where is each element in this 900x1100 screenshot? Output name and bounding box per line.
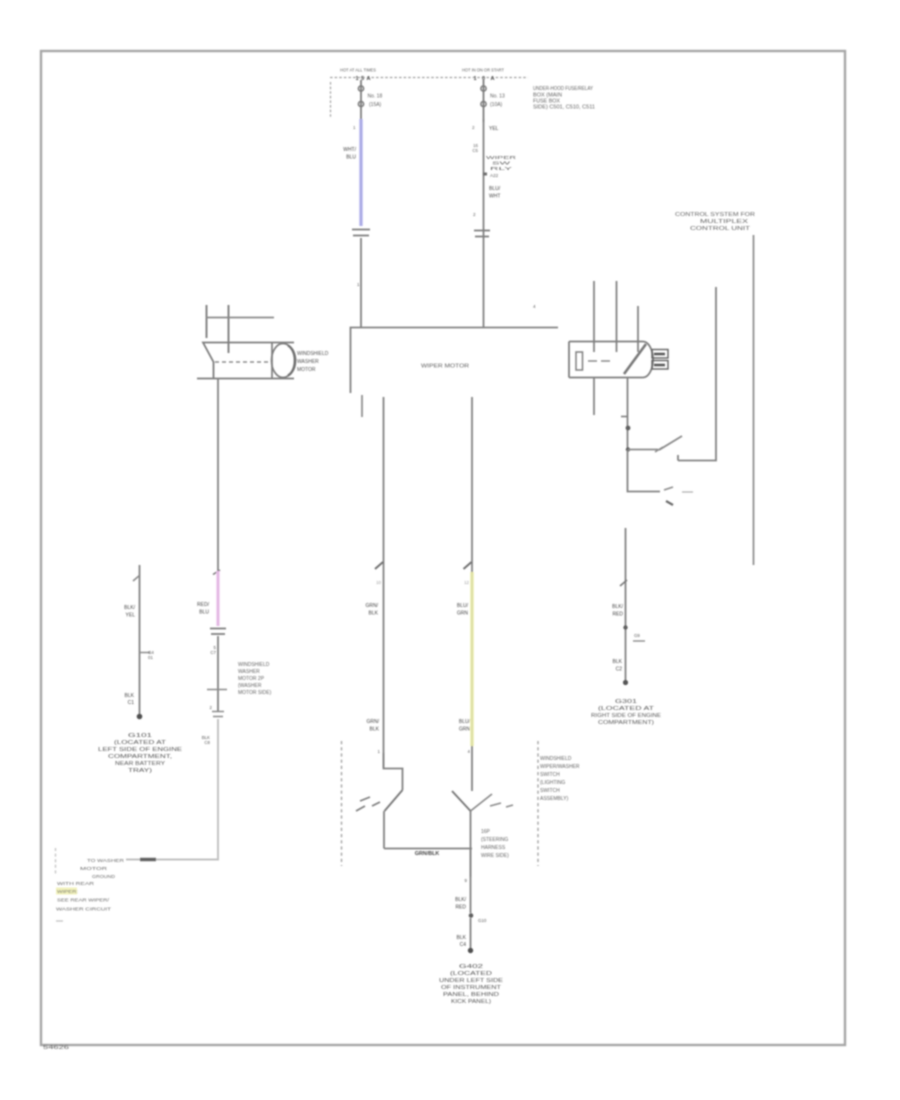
- svg-text:G301: G301: [615, 699, 637, 705]
- svg-text:WIPER/WASHER: WIPER/WASHER: [540, 764, 580, 770]
- washer motor dashed divider: [215, 361, 269, 363]
- svg-text:UNDER-HOOD FUSE/RELAY: UNDER-HOOD FUSE/RELAY: [533, 86, 594, 92]
- svg-text:MOTOR SIDE): MOTOR SIDE): [238, 690, 272, 696]
- svg-text:MULTIPLEX: MULTIPLEX: [700, 219, 749, 225]
- svg-text:WHT: WHT: [489, 194, 500, 200]
- svg-text:(LOCATED AT: (LOCATED AT: [114, 740, 166, 746]
- left ground wire: [139, 565, 141, 715]
- svg-text:1: 1: [353, 125, 356, 130]
- connector chevron: [213, 570, 220, 575]
- in-line connector C1: [352, 230, 370, 236]
- svg-text:BLK/: BLK/: [612, 604, 623, 610]
- in-line connector C4: [212, 712, 224, 717]
- svg-text:BLK: BLK: [457, 935, 467, 941]
- svg-text:G10: G10: [478, 918, 487, 923]
- svg-text:10: 10: [376, 580, 381, 585]
- svg-text:GRN/: GRN/: [367, 719, 380, 725]
- right return wire: [678, 287, 716, 461]
- svg-text:WHT/: WHT/: [343, 147, 356, 153]
- svg-text:MOTOR: MOTOR: [80, 866, 108, 872]
- wire from control system label: [753, 235, 755, 565]
- relay connector stack: [652, 350, 668, 359]
- relay stub left: [593, 378, 595, 415]
- wire washer motor down: [217, 378, 219, 571]
- wire B to switch: [471, 746, 473, 791]
- svg-text:WINDSHIELD: WINDSHIELD: [238, 662, 270, 668]
- svg-text:2: 2: [473, 212, 476, 217]
- washer motor pin 2: [228, 305, 230, 353]
- svg-text:WIPER MOTOR: WIPER MOTOR: [421, 364, 469, 370]
- svg-text:(15A): (15A): [369, 102, 382, 108]
- svg-text:WITH REAR: WITH REAR: [57, 881, 95, 887]
- washer motor pin 1: [206, 305, 208, 338]
- svg-text:CONTROL UNIT: CONTROL UNIT: [690, 226, 750, 232]
- svg-text:A22: A22: [490, 173, 499, 178]
- wire WHT/BLU (blue): [359, 119, 362, 226]
- wire B from motor box: [471, 397, 473, 572]
- svg-text:NEAR BATTERY: NEAR BATTERY: [115, 761, 166, 767]
- svg-text:OF INSTRUMENT: OF INSTRUMENT: [441, 985, 501, 991]
- svg-text:RED: RED: [612, 612, 623, 618]
- svg-text:SEE REAR WIPER/: SEE REAR WIPER/: [57, 898, 110, 904]
- ground G402: [468, 948, 473, 953]
- switch dash: [664, 487, 673, 490]
- wiper relay body: [569, 342, 643, 378]
- svg-text:(WASHER: (WASHER: [238, 683, 262, 689]
- switch dashed box right: [537, 741, 539, 866]
- contact dot: [666, 501, 673, 505]
- svg-text:YEL: YEL: [489, 126, 499, 132]
- svg-text:TRAY): TRAY): [128, 768, 153, 774]
- svg-text:LEFT SIDE OF ENGINE: LEFT SIDE OF ENGINE: [98, 747, 183, 753]
- svg-text:BLK: BLK: [613, 659, 623, 665]
- junction dot w/ label: [623, 625, 627, 629]
- washer motor body: [197, 343, 294, 379]
- switch link horizontal: [384, 848, 472, 850]
- wire A jog: [384, 753, 403, 790]
- relay pin lead 1: [593, 281, 595, 352]
- svg-text:GRN/BLK: GRN/BLK: [415, 851, 440, 857]
- svg-text:HARNESS: HARNESS: [481, 845, 506, 851]
- svg-text:BLU/: BLU/: [457, 603, 469, 609]
- wire: [360, 238, 362, 327]
- switch B dashes: [490, 803, 513, 807]
- svg-text:54626: 54626: [43, 1045, 69, 1051]
- ground G301: [623, 680, 628, 685]
- svg-text:YEL: YEL: [126, 613, 136, 619]
- svg-text:16P: 16P: [481, 829, 491, 835]
- wiper switch pole B: [452, 791, 471, 811]
- svg-text:G101: G101: [128, 733, 152, 739]
- svg-text:MOTOR 2P: MOTOR 2P: [238, 676, 265, 682]
- svg-text:(STEERING: (STEERING: [481, 837, 508, 843]
- wire: [217, 636, 219, 712]
- in-line connector tick dark: [140, 858, 156, 861]
- svg-text:No. 13: No. 13: [490, 94, 505, 100]
- in-line connector C3: [210, 629, 226, 635]
- pin tick: [621, 416, 627, 418]
- fuse F1: [360, 80, 362, 122]
- switch dashed box left: [341, 741, 343, 866]
- svg-text:C4: C4: [460, 942, 467, 948]
- faint dash: [56, 920, 63, 922]
- svg-text:WASHER: WASHER: [238, 669, 260, 675]
- svg-text:COMPARTMENT): COMPARTMENT): [598, 720, 654, 726]
- wire B tail: [470, 848, 472, 913]
- junction dot w/ label: [469, 913, 474, 918]
- svg-text:1: 1: [357, 282, 360, 287]
- svg-text:CONTROL SYSTEM FOR: CONTROL SYSTEM FOR: [675, 212, 756, 218]
- svg-text:2: 2: [472, 125, 475, 130]
- svg-text:BLK: BLK: [125, 693, 135, 699]
- switch A dashes: [356, 797, 380, 811]
- pointer tick: [633, 640, 645, 642]
- svg-text:SWITCH: SWITCH: [540, 788, 560, 794]
- svg-text:BLU/: BLU/: [489, 186, 501, 192]
- relay pin lead 3: [637, 306, 639, 352]
- svg-text:KICK PANEL): KICK PANEL): [451, 999, 491, 1005]
- junction tick w/ label: [139, 652, 150, 654]
- wire: [330, 82, 332, 117]
- svg-text:(LIGHTING: (LIGHTING: [540, 780, 565, 786]
- svg-text:01: 01: [148, 655, 153, 660]
- svg-text:15A: 15A: [356, 76, 371, 82]
- svg-text:WINDSHIELD: WINDSHIELD: [540, 756, 572, 762]
- wire down to ground: [625, 528, 627, 682]
- svg-text:RIGHT SIDE OF ENGINE: RIGHT SIDE OF ENGINE: [591, 713, 662, 719]
- svg-text:C2: C2: [616, 667, 623, 673]
- svg-text:BLU/: BLU/: [459, 719, 471, 725]
- svg-text:BLU: BLU: [346, 155, 356, 161]
- washer motor top lead: [206, 317, 274, 319]
- dashed stub: [55, 848, 57, 874]
- svg-text:BLK: BLK: [370, 727, 380, 733]
- relay right arc: [643, 342, 653, 378]
- svg-text:BLK/: BLK/: [124, 605, 135, 611]
- pin stub: [361, 395, 363, 417]
- svg-text:PANEL, BEHIND: PANEL, BEHIND: [443, 992, 500, 998]
- wire faint down-left: [126, 719, 218, 860]
- junction dot: [626, 447, 630, 451]
- svg-text:BLU: BLU: [199, 610, 209, 616]
- svg-text:2: 2: [210, 705, 213, 710]
- wire B YEL highlight: [470, 572, 474, 746]
- svg-text:RED: RED: [455, 905, 466, 911]
- svg-text:C8: C8: [204, 740, 210, 745]
- switch B arm right: [471, 794, 493, 811]
- svg-text:HOT AT ALL TIMES: HOT AT ALL TIMES: [340, 68, 376, 73]
- switch contact horizontal: [628, 449, 658, 451]
- svg-text:4: 4: [468, 749, 471, 754]
- svg-text:12: 12: [464, 580, 469, 585]
- relay switch arm: [624, 344, 646, 374]
- svg-text:C1: C1: [128, 700, 135, 706]
- svg-text:No. 18: No. 18: [368, 94, 383, 100]
- ground G101: [137, 714, 143, 720]
- washer motor pump circle: [271, 343, 273, 378]
- svg-text:WIPER: WIPER: [486, 155, 517, 160]
- junction marker: [483, 173, 487, 176]
- wire: [483, 119, 485, 327]
- svg-text:ASSEMBLY): ASSEMBLY): [540, 796, 569, 802]
- svg-text:WASHER CIRCUIT: WASHER CIRCUIT: [56, 907, 111, 913]
- svg-text:RLY: RLY: [490, 166, 512, 171]
- pointer dash: [207, 689, 227, 691]
- svg-text:G9: G9: [634, 633, 640, 638]
- wiper switch pole A: [385, 790, 403, 811]
- svg-text:1: 1: [378, 749, 381, 754]
- in-line connector C2: [474, 231, 490, 237]
- svg-text:(LOCATED AT: (LOCATED AT: [598, 706, 654, 712]
- svg-text:4: 4: [533, 304, 536, 309]
- wire: [470, 918, 472, 949]
- svg-text:GROUND: GROUND: [92, 874, 116, 880]
- svg-text:9: 9: [465, 878, 468, 883]
- svg-text:GRN: GRN: [459, 727, 471, 733]
- svg-text:UNDER LEFT SIDE: UNDER LEFT SIDE: [439, 978, 504, 984]
- svg-text:(10A): (10A): [490, 102, 503, 108]
- svg-text:GRN/: GRN/: [366, 603, 379, 609]
- switch dash 2: [682, 491, 693, 493]
- svg-text:WINDSHIELD: WINDSHIELD: [297, 351, 329, 357]
- svg-text:HOT IN ON OR START: HOT IN ON OR START: [462, 68, 504, 73]
- connector chevron A: [375, 562, 383, 569]
- relay inner pin block: [576, 352, 583, 370]
- under-hood fuse/relay box dashed outline: [330, 77, 528, 79]
- wiper motor box: [351, 328, 559, 394]
- wire B below switch: [470, 811, 472, 877]
- svg-text:SW: SW: [492, 161, 512, 166]
- svg-text:BLK/: BLK/: [455, 897, 466, 903]
- svg-text:COMPARTMENT,: COMPARTMENT,: [108, 754, 172, 760]
- svg-text:WIRE SIDE): WIRE SIDE): [481, 853, 509, 859]
- svg-text:SWITCH: SWITCH: [540, 772, 560, 778]
- svg-text:G402: G402: [459, 964, 483, 970]
- svg-text:MOTOR: MOTOR: [297, 367, 316, 373]
- svg-text:BLK: BLK: [369, 611, 379, 617]
- svg-text:(LOCATED: (LOCATED: [450, 971, 493, 977]
- svg-text:SIDE) C501, C510, C511: SIDE) C501, C510, C511: [533, 105, 595, 111]
- fuse F2: [483, 80, 485, 122]
- wire A from motor box: [383, 397, 385, 768]
- relay inner dashes: [588, 360, 610, 362]
- wire A below switch: [383, 811, 385, 849]
- svg-text:GRN: GRN: [457, 611, 469, 617]
- connector chevron: [133, 575, 140, 581]
- wire RED/BLU (pink): [216, 571, 219, 626]
- svg-text:WIPER:: WIPER:: [57, 889, 78, 895]
- wire lower segment: [628, 450, 661, 492]
- svg-text:C7: C7: [210, 650, 216, 655]
- relay stub right / wire: [627, 378, 629, 450]
- switch arm diagonal: [659, 436, 682, 450]
- svg-text:TO WASHER: TO WASHER: [87, 858, 125, 864]
- relay pin lead 2: [616, 281, 618, 352]
- svg-text:C5: C5: [472, 148, 478, 153]
- svg-text:RED/: RED/: [197, 602, 210, 608]
- connector chevron B: [464, 562, 472, 569]
- connector chevron: [620, 580, 627, 586]
- junction dot: [626, 426, 631, 431]
- svg-text:WASHER: WASHER: [297, 359, 319, 365]
